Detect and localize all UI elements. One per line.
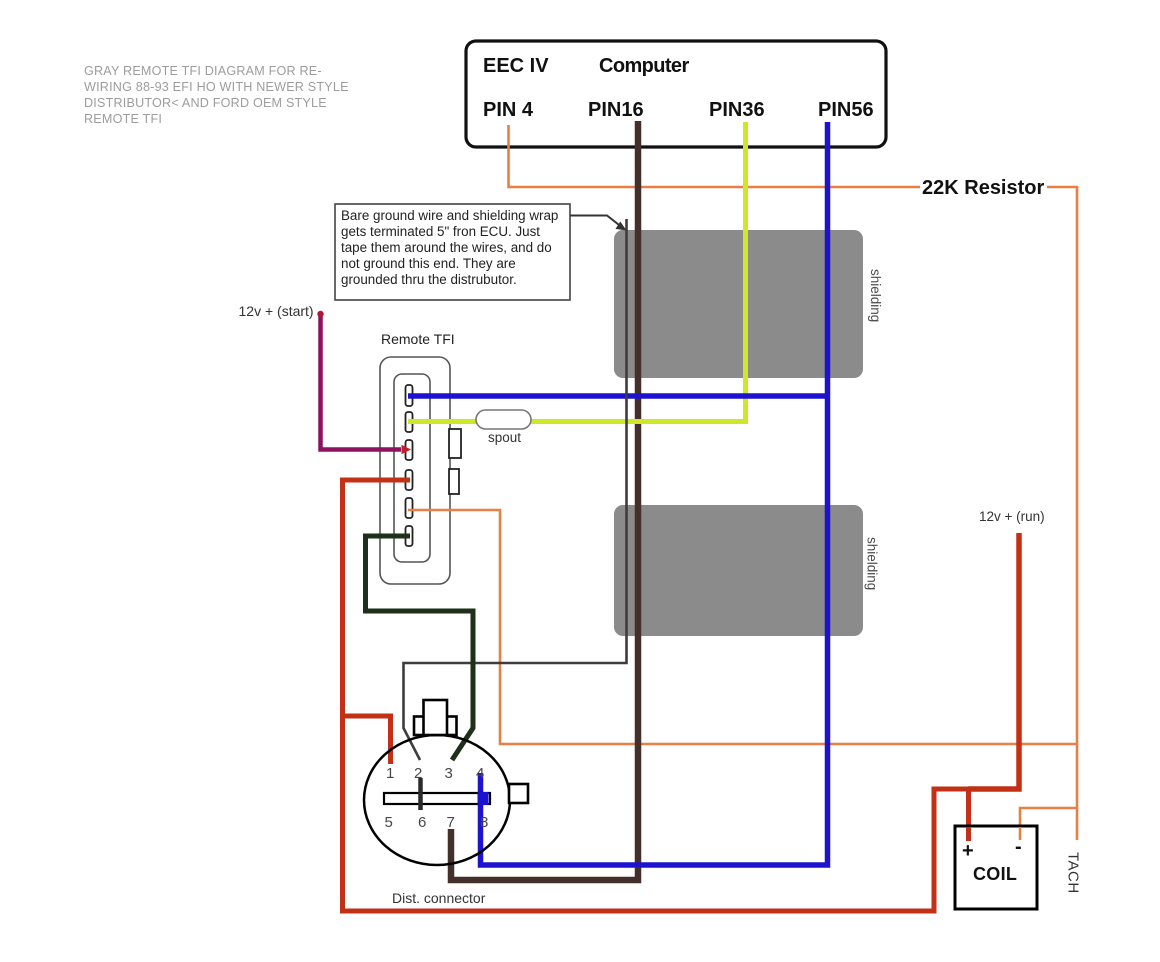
- wire brown PIN16 down to distributor pin 7: [451, 121, 638, 880]
- svg-text:EEC IV: EEC IV: [483, 55, 549, 77]
- svg-text:PIN 4: PIN 4: [483, 99, 534, 121]
- shielding wrap 1: [614, 230, 863, 378]
- svg-text:DISTRIBUTOR< AND FORD OEM STYL: DISTRIBUTOR< AND FORD OEM STYLE: [84, 96, 327, 110]
- svg-text:TACH: TACH: [1065, 852, 1082, 894]
- wire blue PIN56 down, left to distributor pin 8: [481, 122, 828, 865]
- TFI pin slot 6: [406, 526, 413, 546]
- svg-text:7: 7: [447, 814, 455, 831]
- wire orange stub into coil -: [1019, 827, 1022, 840]
- distributor cap key base: [414, 717, 457, 736]
- svg-text:-: -: [1015, 836, 1022, 858]
- TFI pin slot 1: [406, 385, 413, 406]
- svg-text:22K Resistor: 22K Resistor: [922, 177, 1044, 199]
- note arrow to shielding ground wire: [570, 216, 621, 227]
- distributor side tab: [509, 784, 528, 803]
- TFI pin slot 3: [406, 440, 413, 460]
- wire orange from PIN 4 to 22K resistor and down to junction: [509, 125, 1078, 840]
- distributor pin6 bar: [418, 778, 423, 810]
- svg-text:PIN36: PIN36: [709, 99, 765, 121]
- svg-text:shielding: shielding: [868, 269, 883, 322]
- coil box: [955, 826, 1037, 909]
- TFI pin slot 2: [406, 412, 413, 432]
- svg-text:5: 5: [385, 814, 393, 831]
- svg-text:3: 3: [445, 765, 453, 782]
- svg-text:1: 1: [386, 765, 394, 782]
- svg-text:4: 4: [476, 765, 484, 782]
- remote TFI side tab upper: [449, 429, 461, 458]
- svg-text:Computer: Computer: [599, 55, 689, 77]
- svg-text:REMOTE TFI: REMOTE TFI: [84, 112, 162, 126]
- wire orange branch to coil negative: [1020, 808, 1077, 838]
- svg-text:GRAY REMOTE TFI DIAGRAM FOR RE: GRAY REMOTE TFI DIAGRAM FOR RE-: [84, 64, 322, 78]
- svg-text:not ground this end. They are: not ground this end. They are: [341, 256, 516, 271]
- wire yellow PIN36 down and left to TFI pin 2: [408, 122, 746, 422]
- distributor cap key upper: [424, 700, 448, 735]
- svg-text:12v + (start): 12v + (start): [239, 303, 314, 319]
- distributor slot bar: [384, 793, 490, 804]
- wire orange from TFI pin5 across to TACH node: [408, 510, 1077, 744]
- wire red 12v run to coil +: [968, 533, 1019, 789]
- svg-text:PIN56: PIN56: [818, 99, 874, 121]
- wire red TFI pin4 to distributor pin1 and coil +: [343, 480, 969, 911]
- TFI pin slot 4: [406, 470, 413, 490]
- shielding wrap 2: [614, 505, 863, 636]
- svg-text:2: 2: [414, 765, 422, 782]
- wire purple 12v start to TFI pin3: [321, 315, 402, 450]
- distributor pin numbers: [385, 765, 489, 831]
- remote TFI connector inner shell: [394, 374, 430, 562]
- svg-text:Bare ground wire and shielding: Bare ground wire and shielding wrap: [341, 208, 558, 223]
- wire blue TFI pin1 to PIN56 drop: [408, 393, 828, 399]
- svg-text:PIN16: PIN16: [588, 99, 644, 121]
- 22K resistor label (white backing): [920, 172, 1047, 199]
- svg-text:tape them around the wires, an: tape them around the wires, and do: [341, 240, 552, 255]
- wire dark green TFI pin6 to distributor pin3: [366, 536, 474, 760]
- EEC IV computer box: [466, 41, 886, 147]
- TFI pin slot 5: [406, 498, 413, 518]
- title note text: [84, 64, 349, 126]
- svg-text:12v + (run): 12v + (run): [979, 509, 1045, 524]
- purple wire start cap: [317, 311, 323, 317]
- wire thin gray shielding ground to distributor pin 2: [404, 219, 627, 760]
- svg-text:8: 8: [480, 814, 488, 831]
- svg-text:shielding: shielding: [865, 537, 880, 590]
- blue square at distributor pin 8: [478, 792, 489, 805]
- svg-text:grounded thru the distrubutor.: grounded thru the distrubutor.: [341, 272, 517, 287]
- svg-text:+: +: [962, 840, 974, 862]
- remote TFI side tab lower: [449, 469, 459, 494]
- spout capsule: [476, 410, 531, 429]
- purple wire arrowhead at pin3: [402, 445, 412, 455]
- svg-text:6: 6: [418, 814, 426, 831]
- wire red stub into coil +: [966, 827, 971, 841]
- svg-text:gets terminated 5" fron ECU. J: gets terminated 5" fron ECU. Just: [341, 224, 540, 239]
- svg-text:WIRING 88-93 EFI HO WITH NEWER: WIRING 88-93 EFI HO WITH NEWER STYLE: [84, 80, 349, 94]
- svg-text:COIL: COIL: [973, 864, 1017, 884]
- distributor connector body: [364, 735, 510, 865]
- note box: bare ground wire: [335, 204, 570, 300]
- note box text: [341, 208, 558, 287]
- wire red branch to distributor pin 1: [343, 716, 391, 764]
- svg-text:Remote TFI: Remote TFI: [381, 331, 455, 347]
- svg-text:Dist. connector: Dist. connector: [392, 890, 486, 906]
- svg-text:spout: spout: [488, 430, 521, 445]
- remote TFI connector outer shell: [380, 357, 450, 584]
